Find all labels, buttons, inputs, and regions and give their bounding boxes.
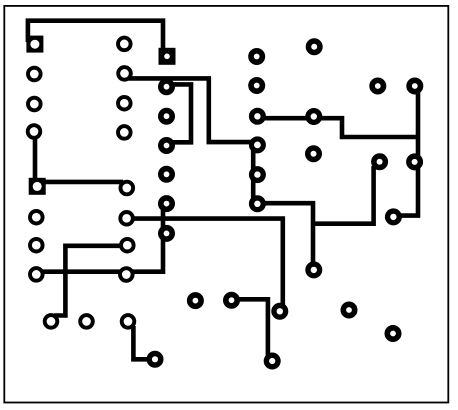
pad R1 filled [372,80,383,91]
wire pad 257-145 to 257-203 vertical [251,146,256,203]
wire U2-1 vertical into square J2 [33,137,38,180]
wire pad U1-7 to pad C [129,78,253,142]
pad B1 filled [190,295,201,306]
pad N4 filled [251,139,263,151]
pad U1-5 open [118,126,131,139]
pad U2-3 open [30,239,43,252]
square pad J2-1 [29,178,46,195]
pad U1-7 open [118,67,131,80]
pad B3 filled [266,355,278,367]
wire square J2 to pad U2-8 [37,180,123,185]
wire pad U2-6 west down [54,246,123,316]
pad P2 open [80,315,93,328]
pad M6 filled [161,228,172,239]
pad B4 filled [149,354,161,366]
wire long bottom net [41,210,163,272]
wire pad row 257 to right column [258,118,418,137]
pad U1-4 open [28,125,41,138]
pad K2 filled [308,111,320,123]
pad U2-4 open [30,268,43,281]
pad R7 filled [387,328,398,339]
wire right column vertical [398,89,418,216]
pad K3 filled [308,148,320,160]
pad N1 filled [251,51,262,62]
pad U1-8 open [118,38,131,51]
pad P1 open [45,315,58,328]
pad R2 filled [409,80,420,91]
pad U2-6 open [121,239,134,252]
square pad J1-1 [26,36,43,53]
pad U1-6 open [118,97,131,110]
pad R5 filled [388,211,400,223]
pad M2 filled [161,111,172,122]
pad R4 filled [409,156,421,168]
pad U2-8 open [121,182,134,195]
pad N3 filled [252,110,264,122]
pad B2 filled [226,295,237,306]
pad K4 filled [308,264,320,276]
pad N5 filled [252,169,264,181]
pad M5 filled [161,198,172,209]
pad U2-7 open [120,212,133,225]
pad M1 filled [161,81,172,92]
pad K1 filled [308,41,320,53]
pad N6 filled [252,198,264,210]
wire pad M1 to pad M3 bracket [163,84,191,142]
pad M3 filled [161,140,172,151]
wire pad U2-5 long east [131,219,283,307]
pad U2-2 open [30,211,43,224]
pad B5 filled [274,305,286,317]
wire square J1-1 to square U3 pad [28,21,163,54]
wire pad 257-203 to pad 313-270 [258,203,313,266]
pad M4 filled [161,169,172,180]
pad U2-5 open [120,268,133,281]
pad P3 open [122,315,135,328]
pad R6 filled [343,304,354,315]
pad U1-3 open [28,98,41,111]
pad N2 filled [251,80,262,91]
wire bottom ring to filled pad [133,326,151,359]
wire square U1-8 vertical [33,40,38,44]
wire filled pad 231 down [236,299,268,357]
wire pad 379 down-left [311,166,374,224]
pad R3 filled [374,156,386,168]
pad U1-2 open [28,68,41,81]
square pad U3-1 filled [159,48,176,65]
